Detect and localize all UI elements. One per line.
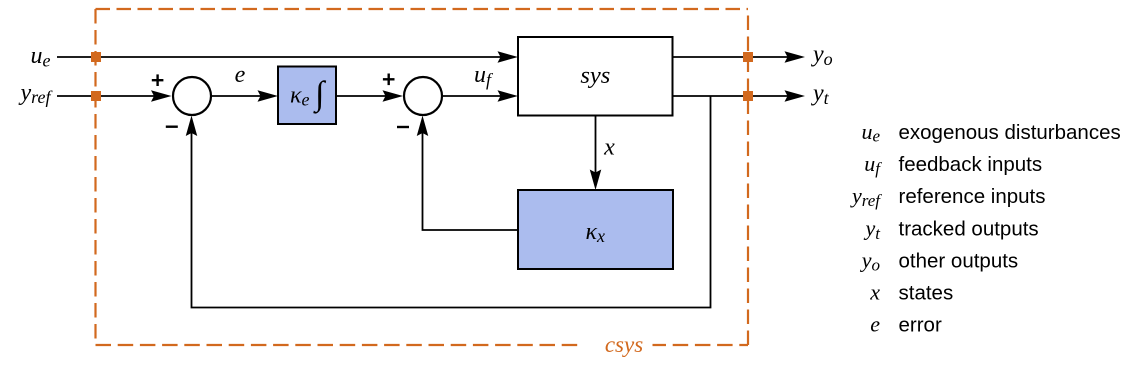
- legend row x: [869, 280, 953, 305]
- feedback wire from y_t branch to S1: [186, 96, 711, 308]
- wire y_t (sys output): [673, 90, 806, 102]
- svg-text:x: x: [869, 280, 880, 305]
- plus sign at S2: [383, 74, 395, 86]
- block sys: [518, 37, 673, 116]
- legend row e: [870, 312, 942, 337]
- legend row y_t: [864, 215, 1039, 243]
- svg-text:reference inputs: reference inputs: [899, 185, 1046, 208]
- svg-text:csys: csys: [605, 332, 643, 357]
- block K_e integrator: [278, 67, 336, 125]
- svg-text:sys: sys: [580, 62, 610, 89]
- wire y_o (sys output): [673, 51, 806, 63]
- summing junction S2: [404, 77, 442, 115]
- svg-text:error: error: [899, 314, 942, 337]
- minus sign at S2: [397, 126, 409, 128]
- svg-text:tracked outputs: tracked outputs: [899, 217, 1039, 240]
- gap in boundary for csys label: [578, 335, 653, 355]
- dashed boundary box csys: [96, 9, 749, 345]
- svg-text:other outputs: other outputs: [899, 249, 1019, 272]
- boundary crossing marker y_ref left: [91, 91, 101, 101]
- svg-text:e: e: [870, 312, 880, 337]
- wire e (S1 to K_e block): [211, 90, 278, 102]
- wire x (sys to K_x): [590, 116, 602, 191]
- legend row y_o: [860, 247, 1018, 274]
- summing junction S1: [173, 77, 211, 115]
- wire y_ref (input to summing junction S1): [57, 90, 172, 102]
- wire u_e (input to sys): [57, 51, 518, 63]
- boundary crossing marker y_o right: [743, 52, 753, 62]
- feedback wire K_x to S2: [417, 116, 518, 231]
- boundary crossing marker y_t right: [743, 91, 753, 101]
- legend row y_ref: [850, 183, 1046, 210]
- wire u_f (S2 to sys): [442, 90, 518, 102]
- legend row u_e: [861, 119, 1120, 146]
- minus sign at S1: [166, 125, 178, 127]
- wire K_e to summing junction S2: [336, 90, 403, 102]
- boundary crossing marker u_e left: [91, 52, 101, 62]
- svg-text:feedback inputs: feedback inputs: [899, 153, 1043, 176]
- svg-text:x: x: [603, 135, 615, 161]
- legend row u_f: [864, 151, 1042, 178]
- svg-text:states: states: [899, 282, 954, 305]
- svg-text:e: e: [235, 62, 246, 88]
- svg-text:exogenous disturbances: exogenous disturbances: [899, 121, 1121, 144]
- plus sign at S1: [152, 74, 164, 86]
- block K_x: [518, 190, 673, 269]
